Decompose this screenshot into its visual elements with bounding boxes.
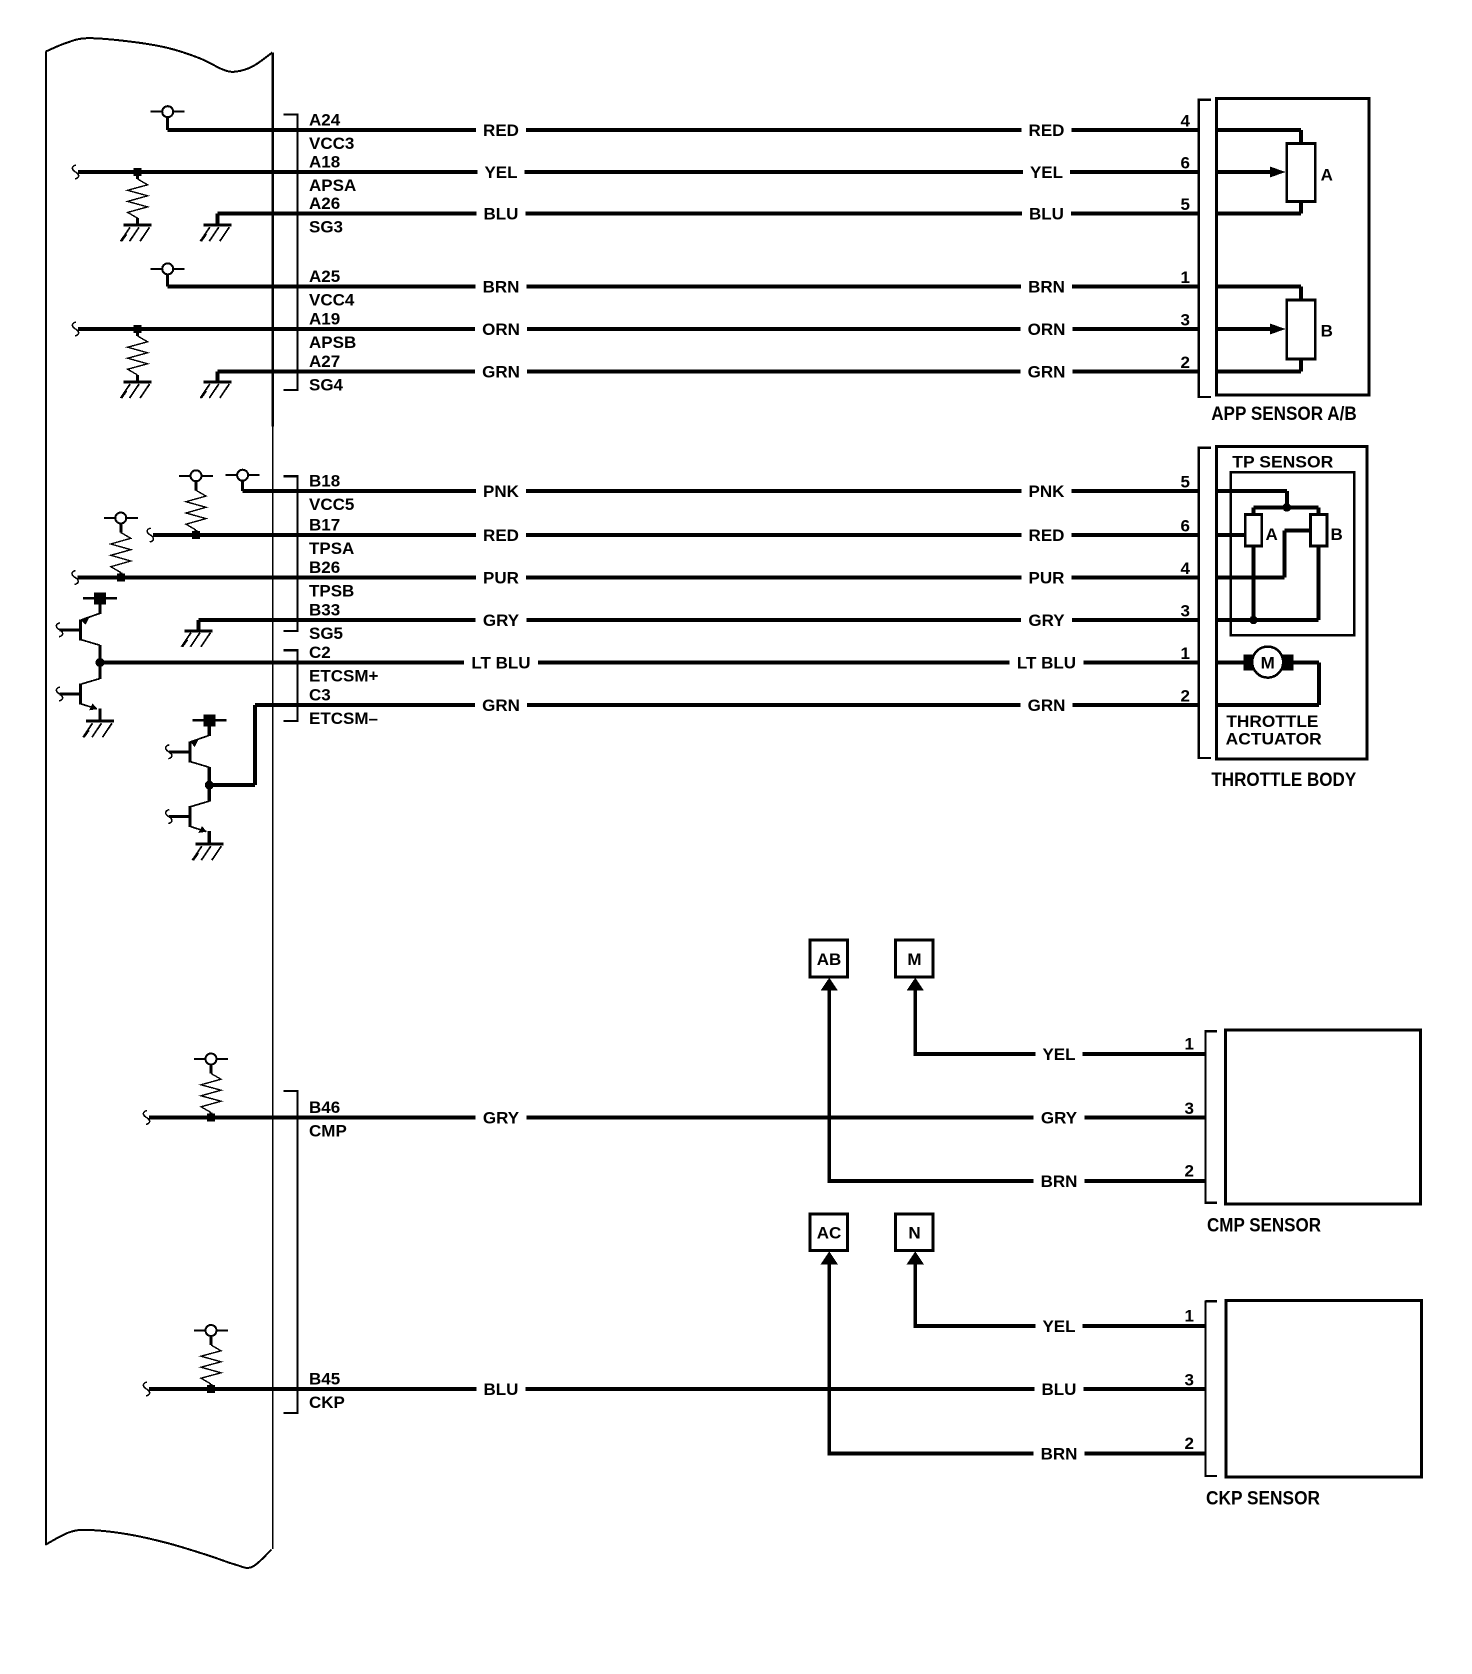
svg-text:GRY: GRY: [483, 611, 520, 630]
svg-text:N: N: [908, 1224, 920, 1243]
svg-text:GRN: GRN: [482, 363, 520, 382]
callout box AB: [810, 940, 848, 977]
svg-text:AC: AC: [817, 1224, 842, 1243]
APP sensor box: [1217, 99, 1369, 395]
svg-text:ETCSM+: ETCSM+: [309, 667, 379, 686]
pull-down resistor A19: [128, 329, 148, 382]
wire A25 BRN: [168, 284, 1199, 288]
wire break mark B17: [147, 528, 153, 542]
wire colour label YEL (left, A18): [478, 162, 525, 182]
label B (TP): [1331, 525, 1343, 544]
svg-text:CMP SENSOR: CMP SENSOR: [1207, 1216, 1321, 1237]
label A (TP): [1266, 525, 1278, 544]
ground SG5: [181, 620, 212, 647]
junction B26: [117, 574, 125, 582]
wire colour label RED (left, B17): [476, 525, 526, 545]
callout box N: [896, 1214, 934, 1251]
pull-up resistor B26: [111, 524, 131, 578]
wire B17 RED: [153, 533, 1199, 537]
svg-text:RED: RED: [1029, 121, 1065, 140]
caption THROTTLE BODY: [1211, 770, 1356, 791]
pin label B46/CMP: [309, 1098, 347, 1141]
wire break mark B45: [143, 1382, 149, 1396]
svg-text:A18: A18: [309, 152, 340, 171]
TP wiring pin4 PUR: [1217, 528, 1311, 579]
pin number 3 (B46): [1185, 1099, 1194, 1118]
arrow to AB + wire from CMP BRN: [821, 978, 838, 1181]
pin label A19/APSB: [309, 309, 356, 352]
TP wiring pin2 GRN: [1217, 661, 1321, 708]
svg-text:GRY: GRY: [1041, 1109, 1078, 1128]
pin label C2/ETCSM+: [309, 643, 379, 686]
wire B33 GRY: [198, 618, 1198, 622]
svg-text:1: 1: [1185, 1035, 1194, 1054]
svg-text:PNK: PNK: [483, 482, 520, 501]
svg-text:BRN: BRN: [1028, 278, 1065, 297]
wire colour label ORN (right, A19): [1021, 319, 1073, 339]
svg-text:A27: A27: [309, 352, 340, 371]
pin number 2 (A27): [1181, 353, 1190, 372]
throttle motor M: [1217, 647, 1294, 678]
CMP sensor box: [1226, 1030, 1421, 1204]
voltage source circle A24 (VCC3): [151, 106, 185, 130]
svg-text:GRY: GRY: [483, 1109, 520, 1128]
TP wiring pin3 GRY: [1217, 546, 1321, 622]
wire colour label RED (left, A24): [476, 120, 526, 140]
svg-text:TPSA: TPSA: [309, 539, 354, 558]
svg-text:2: 2: [1185, 1162, 1194, 1181]
pin number 1 (C2): [1181, 644, 1190, 663]
wire break mark A18: [72, 165, 78, 179]
transistor Q2A (PNP): [166, 726, 211, 785]
svg-text:CMP: CMP: [309, 1122, 347, 1141]
svg-text:ETCSM–: ETCSM–: [309, 709, 378, 728]
ECM body right edge: [272, 53, 274, 1550]
pin label A24/VCC3: [309, 110, 354, 153]
junction A19: [134, 325, 142, 333]
svg-text:B17: B17: [309, 515, 340, 534]
svg-text:B: B: [1331, 525, 1343, 544]
wire colour label PNK (left, B18): [476, 481, 526, 501]
svg-text:4: 4: [1181, 112, 1191, 131]
wire CMP pin2 BRN: [828, 1179, 1206, 1183]
svg-text:B26: B26: [309, 558, 340, 577]
junction B17 (VCC5): [192, 531, 200, 539]
pin number 6 (A18): [1181, 154, 1190, 173]
svg-text:BLU: BLU: [484, 1380, 519, 1399]
wire CMP pin1 YEL: [914, 1052, 1206, 1056]
pin number 1 (A25): [1181, 268, 1190, 287]
junction B45: [207, 1385, 215, 1393]
wire colour label YEL (CMP): [1036, 1044, 1083, 1064]
caption APP SENSOR A/B: [1211, 404, 1357, 425]
wire colour label RED (right, B17): [1022, 525, 1072, 545]
throttle body box: [1217, 447, 1367, 760]
wire colour label GRN (right, C3): [1021, 695, 1073, 715]
svg-text:6: 6: [1181, 154, 1190, 173]
junction Q1: [96, 658, 105, 667]
pin number 1 (CKP): [1185, 1307, 1194, 1326]
caption CMP SENSOR: [1207, 1216, 1321, 1237]
svg-text:A25: A25: [309, 267, 340, 286]
ECM connector bracket C2-C3: [284, 649, 299, 722]
wire colour label YEL (right, A18): [1023, 162, 1070, 182]
callout box AC: [810, 1214, 848, 1251]
wire A27 GRN: [217, 370, 1199, 374]
ground A19: [121, 381, 152, 399]
supply node square Q1: [83, 592, 117, 604]
svg-text:C3: C3: [309, 685, 331, 704]
arrow to M + wire from CMP YEL: [907, 978, 924, 1054]
svg-text:4: 4: [1181, 559, 1191, 578]
caption CKP SENSOR: [1206, 1489, 1320, 1510]
supply node square Q2: [192, 714, 226, 726]
svg-text:B: B: [1321, 322, 1333, 341]
wire colour label PUR (right, B26): [1022, 568, 1072, 588]
wire colour label RED (right, A24): [1022, 120, 1072, 140]
svg-text:APP SENSOR A/B: APP SENSOR A/B: [1211, 404, 1357, 425]
svg-text:SG5: SG5: [309, 624, 343, 643]
wire colour label BRN (right, A25): [1021, 276, 1072, 296]
svg-text:SG4: SG4: [309, 376, 344, 395]
pin number 2 (CKP): [1185, 1434, 1194, 1453]
pull-down resistor A18: [128, 172, 148, 225]
svg-text:LT BLU: LT BLU: [1017, 654, 1076, 673]
junction B46: [207, 1114, 215, 1122]
pin label A27/SG4: [309, 352, 344, 395]
wire colour label GRN (left, A27): [475, 362, 527, 382]
pin label A18/APSA: [309, 152, 356, 195]
resistor B (APP): [1287, 300, 1316, 359]
connector bracket APP sensor: [1198, 99, 1211, 399]
svg-text:PUR: PUR: [483, 569, 519, 588]
svg-text:A19: A19: [309, 309, 340, 328]
pin number 5 (A26): [1181, 195, 1190, 214]
wire C3 GRN: [255, 703, 1199, 707]
wire B46 GRY: [149, 1116, 1206, 1120]
voltage source circle B17 (VCC5): [179, 470, 213, 481]
wire colour label BRN (CMP): [1034, 1171, 1085, 1191]
svg-text:2: 2: [1185, 1434, 1194, 1453]
wire colour label GRN (left, C3): [475, 695, 527, 715]
wire A19 ORN: [78, 327, 1199, 331]
svg-text:B33: B33: [309, 600, 340, 619]
pin label A25/VCC4: [309, 267, 355, 310]
wire A24 RED: [168, 128, 1199, 132]
connector bracket CMP sensor: [1204, 1030, 1217, 1204]
wire A26 BLU: [217, 212, 1199, 216]
APP sensor B element wiring: [1217, 284, 1303, 373]
wire B45 BLU: [149, 1387, 1206, 1391]
svg-text:GRY: GRY: [1028, 611, 1065, 630]
svg-text:PNK: PNK: [1029, 482, 1066, 501]
ECM torn bottom edge: [45, 1530, 271, 1568]
svg-text:CKP SENSOR: CKP SENSOR: [1206, 1489, 1320, 1510]
svg-text:1: 1: [1185, 1307, 1194, 1326]
svg-text:B18: B18: [309, 471, 340, 490]
pin label B18/VCC5: [309, 471, 354, 514]
wire colour label BRN (CKP): [1034, 1444, 1085, 1464]
svg-text:ACTUATOR: ACTUATOR: [1226, 729, 1322, 748]
wire colour label BLU (right, B45): [1035, 1379, 1084, 1399]
wire colour label GRY (right, B46): [1034, 1108, 1085, 1128]
pin number 4 (A24): [1181, 112, 1191, 131]
CKP sensor box: [1226, 1300, 1422, 1477]
svg-text:A: A: [1266, 525, 1278, 544]
svg-text:5: 5: [1181, 473, 1190, 492]
svg-text:M: M: [1261, 654, 1275, 673]
svg-text:TP SENSOR: TP SENSOR: [1232, 453, 1333, 472]
transistor Q2B (NPN): [166, 785, 211, 844]
svg-text:TPSB: TPSB: [309, 582, 354, 601]
TP wiring pin5 PNK: [1217, 489, 1321, 515]
svg-text:BLU: BLU: [484, 205, 519, 224]
pin number 4 (B26): [1181, 559, 1191, 578]
wire colour label YEL (CKP): [1036, 1316, 1083, 1336]
svg-text:BLU: BLU: [1029, 205, 1064, 224]
wire break mark A19: [72, 322, 78, 336]
voltage source circle B18 (VCC5): [226, 470, 260, 491]
ground A18: [121, 224, 152, 242]
wire colour label BLU (left, B45): [477, 1379, 526, 1399]
TP wiring pin6 RED: [1217, 533, 1246, 537]
voltage source circle B26: [104, 513, 138, 524]
svg-text:BRN: BRN: [1041, 1172, 1078, 1191]
APP sensor A element wiring: [1217, 128, 1303, 216]
svg-text:6: 6: [1181, 517, 1190, 536]
wire C2 LT BLU: [100, 661, 1199, 665]
svg-text:1: 1: [1181, 268, 1190, 287]
pin number 3 (A19): [1181, 311, 1190, 330]
ECM connector bracket B18-SG5: [284, 475, 299, 632]
svg-text:1: 1: [1181, 644, 1190, 663]
wire colour label ORN (left, A19): [475, 319, 527, 339]
svg-text:BRN: BRN: [1041, 1445, 1078, 1464]
connector bracket throttle body: [1198, 447, 1211, 760]
pin number 6 (B17): [1181, 517, 1190, 536]
svg-text:3: 3: [1181, 311, 1190, 330]
pull-up resistor B17 (VCC5): [186, 481, 206, 535]
svg-text:GRN: GRN: [1028, 363, 1066, 382]
wire A18 YEL: [78, 170, 1199, 174]
pin number 3 (B33): [1181, 602, 1190, 621]
callout box M: [896, 940, 934, 977]
voltage source circle A25 (VCC4): [151, 263, 185, 286]
pin label B33/SG5: [309, 600, 343, 643]
svg-text:CKP: CKP: [309, 1393, 345, 1412]
voltage source circle B46: [194, 1054, 228, 1065]
ECM torn top edge: [46, 38, 272, 72]
label B (APP): [1321, 322, 1333, 341]
pin number 2 (C3): [1181, 687, 1190, 706]
svg-text:APSB: APSB: [309, 333, 356, 352]
wire colour label GRY (left, B33): [476, 610, 527, 630]
svg-text:THROTTLE BODY: THROTTLE BODY: [1211, 770, 1356, 791]
wire B26 PUR: [78, 576, 1199, 580]
pin number 3 (B45): [1185, 1371, 1194, 1390]
svg-text:VCC4: VCC4: [309, 290, 355, 309]
svg-text:A: A: [1321, 166, 1333, 185]
arrow to N + wire from CKP YEL: [907, 1251, 924, 1326]
pin label C3/ETCSM–: [309, 685, 378, 728]
svg-text:THROTTLE: THROTTLE: [1226, 712, 1318, 731]
svg-text:YEL: YEL: [1042, 1317, 1075, 1336]
svg-text:3: 3: [1181, 602, 1190, 621]
resistor B (TP): [1310, 515, 1327, 547]
svg-text:VCC3: VCC3: [309, 134, 354, 153]
pin number 1 (CMP): [1185, 1035, 1194, 1054]
wire colour label BRN (left, A25): [476, 276, 527, 296]
pin number 5 (B18): [1181, 473, 1190, 492]
junction Q2: [205, 781, 214, 790]
svg-text:GRN: GRN: [482, 696, 520, 715]
svg-text:RED: RED: [483, 121, 519, 140]
ground SG3: [200, 214, 231, 242]
TP sensor inner box: [1231, 472, 1355, 635]
wire colour label LT BLU (left, C2): [464, 653, 538, 673]
label A (APP): [1321, 166, 1333, 185]
svg-text:C2: C2: [309, 643, 331, 662]
wire colour label GRY (left, B46): [476, 1108, 527, 1128]
svg-text:PUR: PUR: [1029, 569, 1065, 588]
svg-text:YEL: YEL: [484, 163, 517, 182]
svg-text:ORN: ORN: [482, 320, 520, 339]
pull-up resistor B45: [201, 1336, 221, 1389]
ECM body left edge: [45, 52, 47, 1546]
svg-text:RED: RED: [1029, 526, 1065, 545]
resistor A (TP): [1245, 515, 1262, 547]
pin number 2 (CMP): [1185, 1162, 1194, 1181]
transistor Q1A (PNP): [56, 604, 101, 662]
pin label B17/TPSA: [309, 515, 354, 558]
wire colour label PNK (right, B18): [1022, 481, 1072, 501]
svg-text:SG3: SG3: [309, 218, 343, 237]
junction TP bottom: [1249, 616, 1258, 625]
ground Q2: [192, 843, 223, 861]
wire colour label LT BLU (right, C2): [1009, 653, 1083, 673]
wire colour label BLU (right, A26): [1022, 204, 1071, 224]
svg-text:A24: A24: [309, 110, 341, 129]
label TP SENSOR: [1232, 453, 1333, 472]
wire break mark B26: [72, 571, 78, 585]
svg-text:B46: B46: [309, 1098, 340, 1117]
wire C3 riser from Q2 junction: [209, 705, 256, 787]
wire B18 PNK: [243, 489, 1199, 493]
wire colour label PUR (left, B26): [476, 568, 526, 588]
voltage source circle B45: [194, 1325, 228, 1336]
svg-text:ORN: ORN: [1028, 320, 1066, 339]
pin label B45/CKP: [309, 1369, 345, 1412]
svg-text:BRN: BRN: [483, 278, 520, 297]
svg-text:BLU: BLU: [1042, 1380, 1077, 1399]
wire colour label GRY (right, B33): [1021, 610, 1072, 630]
pin label B26/TPSB: [309, 558, 354, 601]
svg-text:AB: AB: [817, 950, 842, 969]
svg-text:3: 3: [1185, 1099, 1194, 1118]
svg-text:2: 2: [1181, 353, 1190, 372]
arrow to AC + wire from CKP BRN: [821, 1251, 838, 1453]
svg-text:YEL: YEL: [1030, 163, 1063, 182]
svg-text:VCC5: VCC5: [309, 495, 354, 514]
wire colour label BLU (left, A26): [477, 204, 526, 224]
resistor A (APP): [1287, 143, 1316, 201]
svg-text:2: 2: [1181, 687, 1190, 706]
svg-text:GRN: GRN: [1028, 696, 1066, 715]
svg-text:A26: A26: [309, 194, 340, 213]
svg-text:M: M: [907, 950, 921, 969]
wire CKP pin2 BRN: [828, 1452, 1206, 1456]
ground Q1: [83, 720, 114, 738]
connector bracket CKP sensor: [1204, 1300, 1217, 1477]
label THROTTLE ACTUATOR: [1226, 712, 1322, 748]
svg-text:5: 5: [1181, 195, 1190, 214]
svg-text:APSA: APSA: [309, 176, 356, 195]
wire CKP pin1 YEL: [914, 1324, 1206, 1328]
svg-text:RED: RED: [483, 526, 519, 545]
svg-text:YEL: YEL: [1042, 1045, 1075, 1064]
ground SG4: [200, 372, 231, 399]
junction A18: [134, 168, 142, 176]
svg-text:3: 3: [1185, 1371, 1194, 1390]
svg-text:LT BLU: LT BLU: [471, 654, 530, 673]
junction TP top: [1283, 503, 1292, 512]
pull-up resistor B46: [201, 1065, 221, 1118]
transistor Q1B (NPN): [56, 663, 101, 722]
svg-text:B45: B45: [309, 1369, 340, 1388]
ECM connector bracket B46-B45: [284, 1090, 299, 1414]
wire colour label GRN (right, A27): [1021, 362, 1073, 382]
pin label A26/SG3: [309, 194, 343, 237]
wire break mark B46: [143, 1111, 149, 1125]
ECM connector bracket A24-A27: [284, 113, 299, 391]
